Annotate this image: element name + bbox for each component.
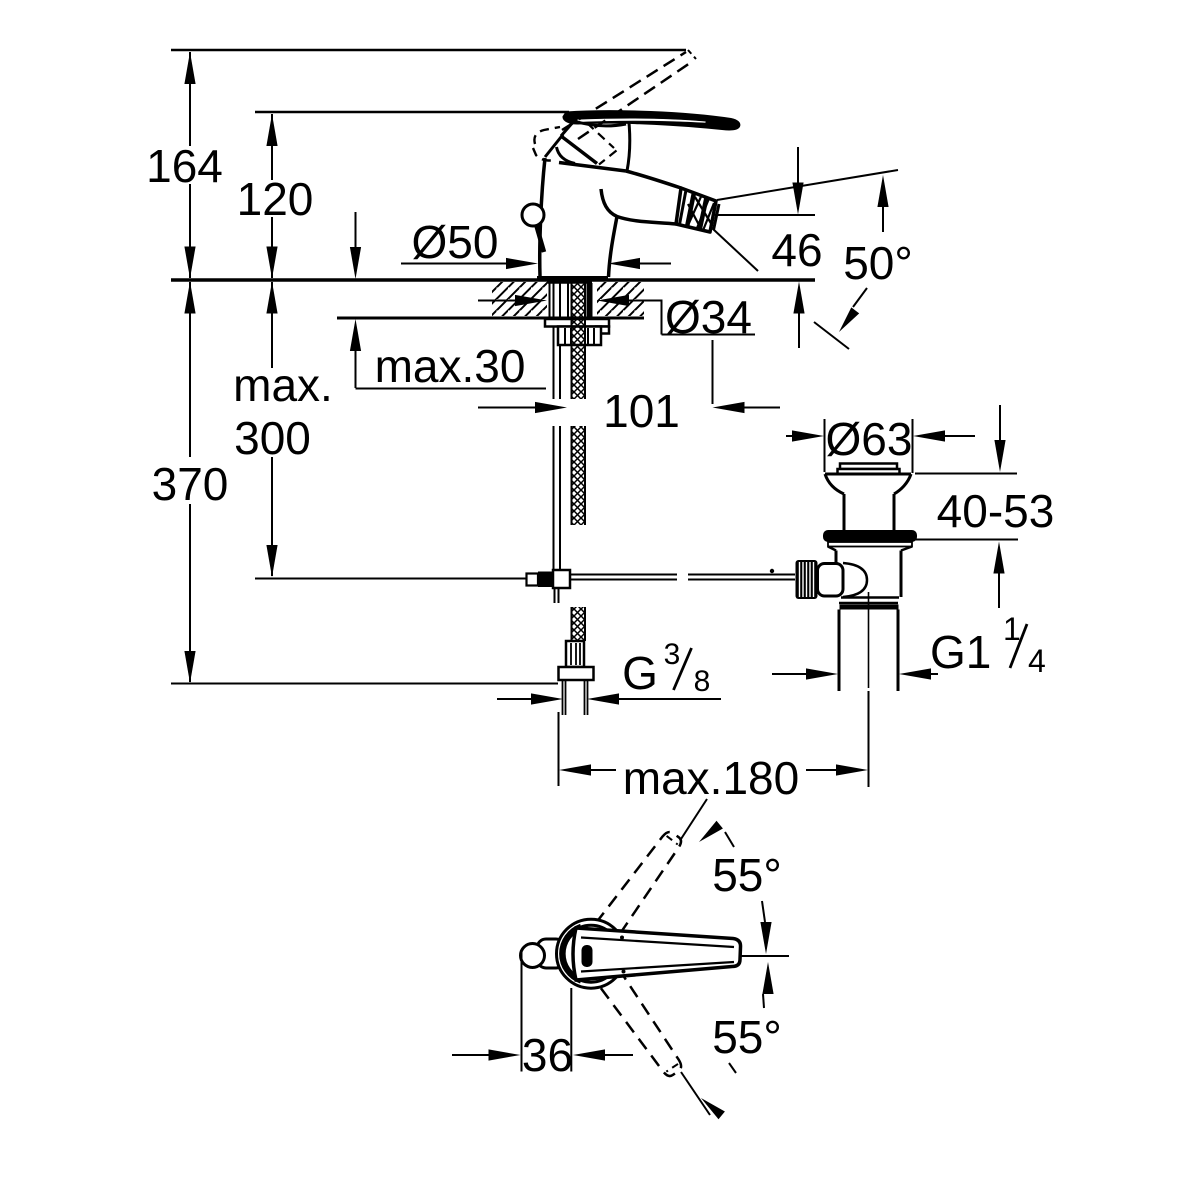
drain D1 flare sides bbox=[825, 474, 844, 494]
svg-text:370: 370 bbox=[152, 458, 229, 510]
dim 164 vertical line bbox=[189, 52, 191, 146]
pull rod coupling bbox=[527, 574, 539, 586]
svg-text:55°: 55° bbox=[712, 1011, 782, 1063]
faucet F1 spout top edge bbox=[626, 171, 681, 188]
dim max.300 vertical line bbox=[271, 282, 273, 368]
svg-text:300: 300 bbox=[234, 412, 311, 464]
node junction dot bbox=[770, 569, 774, 573]
svg-text:46: 46 bbox=[771, 224, 822, 276]
pull rod vertical (lower) bbox=[553, 426, 555, 571]
dim 370 vertical line bbox=[189, 282, 191, 457]
svg-text:120: 120 bbox=[237, 173, 314, 225]
top view lever solid bbox=[573, 928, 741, 980]
dim 50deg diagonal arrow bbox=[853, 288, 867, 307]
faucet F1 spout underside S-curve bbox=[601, 189, 676, 224]
dim G1 1/4 arrows bbox=[772, 673, 809, 675]
drain D1 tailpipe bbox=[838, 610, 841, 692]
top view pop-up knob circle bbox=[521, 944, 545, 968]
dim 55 upper diagonal arrow bbox=[699, 821, 723, 842]
dim max.180 extension line right (drain axis) bbox=[868, 691, 870, 787]
dim max.180 arrows bbox=[559, 764, 591, 775]
G3/8 nut bbox=[559, 667, 594, 680]
dim 46 arrows bbox=[797, 147, 799, 185]
faucet F1 base bottom bbox=[537, 276, 608, 279]
drain D1 internal valve arc bbox=[843, 563, 867, 597]
pull rod tip below coupling bbox=[554, 588, 556, 603]
svg-text:40-53: 40-53 bbox=[937, 485, 1055, 537]
faucet F1 neck right edge bbox=[627, 123, 630, 171]
wire max.30 underline bbox=[356, 388, 547, 390]
wire max.300 bottom reference line (pull-rod level) bbox=[255, 578, 527, 580]
G3/8 pipe stubs bbox=[562, 680, 564, 715]
svg-text:Ø63: Ø63 bbox=[826, 413, 913, 465]
svg-text:max.30: max.30 bbox=[375, 340, 526, 392]
dim 55 lower diagonal arrow bbox=[701, 1098, 725, 1119]
shank right wall black bar bbox=[587, 283, 593, 318]
svg-text:36: 36 bbox=[522, 1029, 573, 1081]
faucet F1 handle raised position (dashed) bbox=[562, 52, 686, 130]
dim 36 extension lines bbox=[521, 950, 523, 1072]
faucet F1 body right edge bbox=[609, 217, 618, 278]
wire deck/counter top line bbox=[171, 278, 815, 282]
shank inner wall bbox=[567, 283, 569, 320]
svg-text:G1: G1 bbox=[930, 626, 991, 678]
dim Ø63 arrows bbox=[786, 435, 795, 437]
svg-text:max.: max. bbox=[233, 359, 333, 411]
top view body outer circle bbox=[557, 919, 626, 988]
dim Ø50 line left bbox=[401, 263, 509, 265]
dim 40-53 arrows bbox=[999, 405, 1001, 442]
G3/8 hose ferrule bbox=[566, 641, 584, 667]
drain D1 rubber seal bbox=[823, 530, 917, 542]
dim 46 upper reference line (aerator outlet level) bbox=[715, 214, 815, 216]
shank top line in deck hole bbox=[547, 281, 592, 284]
drain D1 adjuster knurled knob bbox=[796, 560, 818, 599]
drain D1 center line bbox=[868, 592, 870, 688]
dim 55 lower axis extension of dashed lever bbox=[681, 1072, 710, 1115]
dim 50deg leg line 1 (spray axis extension) bbox=[717, 170, 898, 200]
deck hatch left block bbox=[492, 282, 547, 316]
svg-text:55°: 55° bbox=[712, 849, 782, 901]
drain D1 body bbox=[835, 551, 838, 598]
dim 40-53 bottom reference line bbox=[915, 539, 1018, 541]
svg-text:Ø50: Ø50 bbox=[412, 216, 499, 268]
faucet F1 dome skirt diagonal bbox=[561, 136, 597, 164]
wire 370 bottom reference line bbox=[171, 683, 558, 685]
top view dome ring thick crescent bbox=[562, 927, 581, 981]
faucet F1 pop-up knob bbox=[522, 204, 544, 226]
dim 40-53 top reference line bbox=[915, 473, 1017, 475]
svg-text:3: 3 bbox=[664, 638, 681, 671]
dim G3/8 arrows bbox=[497, 698, 534, 700]
wire deck/counter bottom line bbox=[337, 317, 644, 320]
mounting washer bbox=[545, 319, 609, 327]
faucet F1 handle lever (side view, solid) bbox=[563, 111, 740, 130]
faucet F1 dome skirt arc bbox=[557, 147, 576, 164]
dim Ø50 line right bbox=[608, 258, 640, 269]
faucet F1 dome left corner bbox=[561, 121, 574, 136]
dim 50deg leg line 2 bbox=[713, 229, 758, 271]
dim Ø34 line right + leader to label bbox=[597, 295, 629, 306]
dim 120 vertical line bbox=[271, 114, 273, 180]
faucet F1 dome cap top bbox=[574, 121, 626, 126]
drain D1 plug cap bbox=[840, 464, 897, 470]
flexible hose braided segment bbox=[572, 607, 586, 641]
drain D1 knob connector bbox=[818, 564, 844, 597]
faucet F1 body left edge bbox=[540, 158, 545, 276]
top view dashed lever rotated -55 (lower) bbox=[596, 966, 687, 1080]
shank left wall bbox=[549, 283, 551, 318]
svg-text:G: G bbox=[622, 647, 658, 699]
svg-text:Ø34: Ø34 bbox=[665, 291, 752, 343]
dim max.180 extension line left (faucet axis) bbox=[558, 712, 560, 786]
top view dashed lever rotated +55 (upper) bbox=[594, 827, 685, 941]
drain D1 body bottom rings bbox=[841, 596, 899, 599]
svg-text:101: 101 bbox=[603, 385, 680, 437]
faucet F1 handle grip end dashed (lowered view artifact) bbox=[534, 127, 560, 144]
svg-text:1: 1 bbox=[1003, 611, 1021, 647]
dim 101 line right + extension from Ø34 label bbox=[713, 402, 745, 413]
wire top reference line (164 top / raised handle tip level) bbox=[171, 49, 686, 52]
flexible hose braided segment bbox=[572, 283, 586, 399]
faucet F1 aerator bands bbox=[680, 190, 687, 225]
flexible hose braided segment bbox=[572, 426, 586, 525]
drain D1 flare top bbox=[825, 473, 911, 476]
dim 55 upper down-arrow at axis bbox=[762, 901, 765, 922]
svg-text:8: 8 bbox=[694, 665, 711, 698]
faucet F1 aerator outline bbox=[676, 188, 716, 232]
dim Ø63 extension lines bbox=[824, 419, 826, 472]
dim 50deg up arrow bbox=[882, 206, 884, 232]
dim 36 arrows bbox=[452, 1054, 491, 1056]
svg-text:50°: 50° bbox=[843, 237, 913, 289]
faucet F1 aerator knurl cross lines bbox=[695, 197, 712, 225]
dim 55 upper axis extension of dashed lever bbox=[681, 799, 707, 839]
top view lever inner edges bbox=[581, 938, 734, 948]
top view body nose tab bbox=[537, 939, 565, 968]
wire lever axis line right bbox=[741, 955, 789, 957]
wire horizontal linkage rod bbox=[570, 574, 677, 576]
dim 55 lower up-arrow at axis bbox=[762, 962, 773, 994]
wire 120 reference line (handle level) bbox=[255, 111, 569, 114]
faucet F1 pop-up knob stem bbox=[537, 226, 545, 252]
svg-text:4: 4 bbox=[1028, 643, 1046, 679]
top view lever black spot bbox=[582, 945, 593, 967]
mounting nut bbox=[558, 327, 601, 346]
dim 101 line left bbox=[478, 407, 538, 409]
dim Ø34 line left bbox=[478, 300, 518, 302]
faucet F1 cartridge dashed outline bbox=[587, 123, 614, 148]
svg-text:164: 164 bbox=[146, 140, 223, 192]
drain D1 neck bbox=[843, 494, 846, 530]
dim max.30 arrows bbox=[355, 212, 357, 249]
pull rod vertical (upper) bbox=[553, 283, 555, 399]
top view dome ring circle bbox=[563, 925, 620, 982]
drain D1 seal washer band bbox=[828, 542, 912, 547]
deck hatch right block bbox=[597, 282, 644, 316]
faucet F1 dome to body left slope bbox=[545, 135, 563, 158]
faucet F1 shoulder line bbox=[559, 163, 626, 172]
svg-text:max.180: max.180 bbox=[623, 752, 799, 804]
